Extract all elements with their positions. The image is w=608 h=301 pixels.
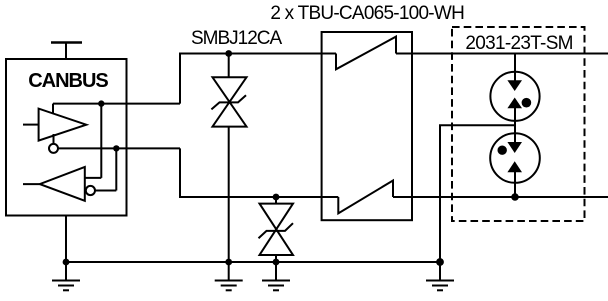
svg-text:CANBUS: CANBUS [28,70,108,92]
svg-text:2 x TBU-CA065-100-WH: 2 x TBU-CA065-100-WH [270,3,464,24]
svg-text:SMBJ12CA: SMBJ12CA [191,28,283,49]
svg-text:2031-23T-SM: 2031-23T-SM [465,33,572,54]
